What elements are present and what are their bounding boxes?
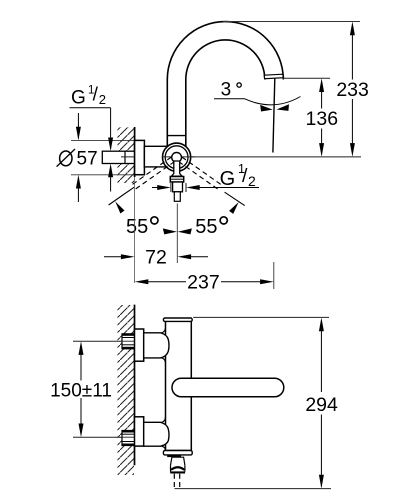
top connection arm <box>144 333 169 358</box>
body bottom cap <box>163 451 192 455</box>
dim G1/2 right leader with arrows <box>152 183 259 192</box>
swivel ray left solid end <box>109 187 134 205</box>
outlet nut <box>170 177 183 183</box>
wall line (upper) <box>134 127 136 177</box>
svg-text:3: 3 <box>221 80 232 101</box>
ball joint inner circle <box>172 153 182 163</box>
dimension 150+-11 <box>50 341 112 437</box>
ball joint outer circle <box>163 143 191 171</box>
wall hatching (upper) <box>118 127 135 183</box>
3 degree arc <box>245 97 301 105</box>
axis / extension line (upper, horizontal) <box>121 156 361 158</box>
tube joint line <box>167 135 186 137</box>
hex nut bottom (lower) <box>122 431 135 446</box>
angle arc arrowhead on left ray <box>115 201 124 213</box>
aerator outlet <box>264 74 283 79</box>
svg-text:55: 55 <box>195 216 217 238</box>
3 degree arrowheads <box>260 105 273 112</box>
body top cap <box>163 318 192 321</box>
hex nut top (lower) <box>122 334 135 349</box>
faucet body <box>166 321 192 450</box>
svg-text:136: 136 <box>306 108 339 130</box>
swivel ray right (dashed pair) <box>179 157 224 191</box>
294 bottom extension line <box>175 488 332 490</box>
bottom arm fillets <box>162 417 166 422</box>
dim G1/2 top-left vertical with arrows <box>108 108 113 192</box>
extension line flange bottom (O57) <box>71 174 144 176</box>
svg-text:2: 2 <box>248 173 256 189</box>
water stream <box>273 79 275 153</box>
spout tube vertical + arc <box>167 22 283 146</box>
lever handle <box>172 378 284 397</box>
extension line right (237, aerator axis) <box>273 262 275 289</box>
svg-text:G: G <box>71 87 86 108</box>
top arm fillets <box>162 328 166 333</box>
union centerline top (lower) <box>73 340 134 342</box>
leader 3 degree <box>214 98 245 100</box>
label 55 degree left <box>126 216 158 238</box>
label 3 degree <box>221 80 242 101</box>
escutcheon flange bottom (lower) <box>135 417 144 446</box>
wall line (lower) <box>134 305 136 466</box>
union centerline across bottom nut <box>122 436 134 438</box>
top extension line (spout apex) <box>223 21 360 23</box>
dim O57 vertical with arrows <box>76 113 81 202</box>
wall hatching (lower) <box>118 305 135 475</box>
swivel ray right solid end <box>225 192 245 205</box>
outlet thread tube G1/2 <box>173 182 183 192</box>
dimension 72 <box>104 246 208 268</box>
label G 1/2 top left <box>70 84 111 108</box>
dimension 136 <box>306 78 339 157</box>
label O57 <box>57 148 98 169</box>
svg-text:/: / <box>93 84 99 105</box>
svg-text:G: G <box>220 168 236 190</box>
dimension 294 <box>305 318 338 489</box>
wall union pipe G1/2 (upper) <box>102 151 134 163</box>
svg-text:2: 2 <box>99 92 106 107</box>
outlet shank below ball <box>171 161 182 176</box>
pull rod dashes <box>174 474 179 489</box>
swivel ray left (dashed pair) <box>130 157 175 191</box>
angle arc arrowheads at centerline (55) <box>163 228 177 234</box>
diverter knob below body <box>167 455 185 474</box>
extension line flange top (O57) <box>71 139 144 141</box>
vertical centerline below outlet <box>176 204 178 264</box>
294 top extension line <box>193 316 329 318</box>
connecting cylinder flange to ball <box>144 146 175 167</box>
svg-text:57: 57 <box>77 148 98 169</box>
bottom connection arm <box>144 422 169 446</box>
angle arc arrowhead on right ray <box>229 202 239 214</box>
union centerline bottom (lower) <box>73 436 134 438</box>
ball joint ring <box>165 146 188 169</box>
union centerline across top nut <box>122 340 134 342</box>
axis line through ball <box>162 156 195 158</box>
svg-text:294: 294 <box>305 394 338 416</box>
svg-text:233: 233 <box>336 79 369 101</box>
wall extension line continuation (upper) <box>134 177 136 283</box>
dimension 237 <box>135 272 274 294</box>
extension line at outlet (136 top) <box>283 77 330 79</box>
svg-text:237: 237 <box>187 272 220 294</box>
svg-text:72: 72 <box>145 246 167 268</box>
svg-text:55: 55 <box>126 216 148 238</box>
outlet lower rect <box>174 192 180 202</box>
label G 1/2 right <box>220 162 256 190</box>
escutcheon flange top (lower) <box>135 329 144 361</box>
dimension 233 <box>336 22 369 157</box>
label 55 degree right <box>195 216 227 238</box>
escutcheon flange (upper) <box>135 140 145 174</box>
